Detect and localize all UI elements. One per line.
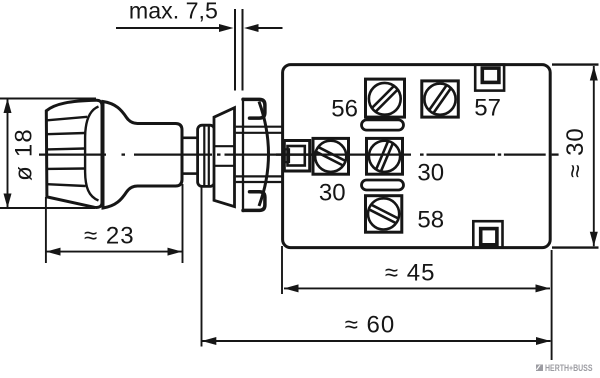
svg-text:≈ 45: ≈ 45 — [385, 260, 436, 287]
svg-text:HERTH+BUSS: HERTH+BUSS — [545, 363, 593, 374]
svg-text:30: 30 — [319, 180, 346, 207]
svg-text:56: 56 — [331, 95, 358, 122]
svg-text:ø 18: ø 18 — [11, 128, 38, 181]
svg-text:≈ 30: ≈ 30 — [562, 127, 589, 178]
svg-text:58: 58 — [417, 207, 444, 234]
svg-text:max. 7,5: max. 7,5 — [129, 0, 218, 23]
svg-text:≈ 23: ≈ 23 — [84, 222, 135, 249]
svg-text:30: 30 — [417, 159, 444, 186]
svg-text:57: 57 — [474, 94, 501, 121]
svg-text:≈ 60: ≈ 60 — [345, 312, 396, 339]
